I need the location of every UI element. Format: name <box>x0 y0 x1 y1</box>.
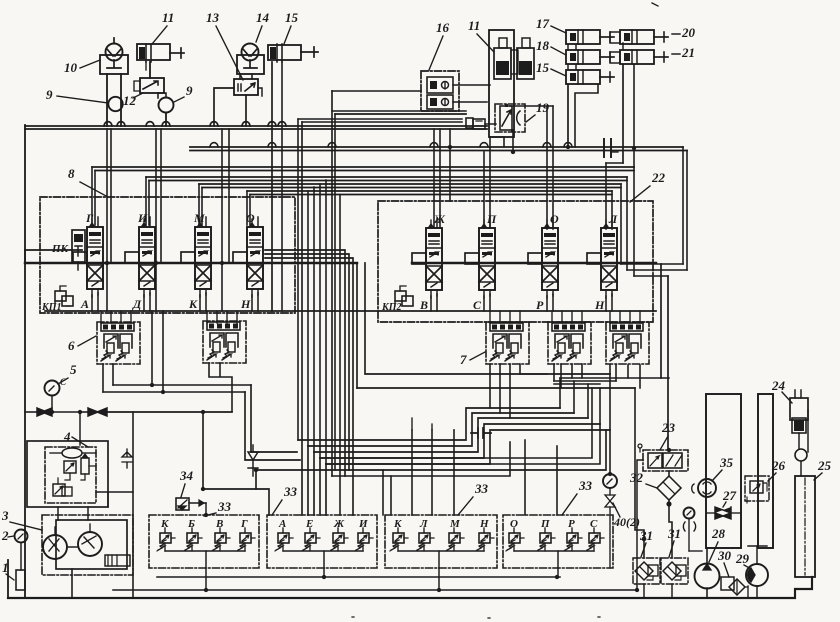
gauge 40 <box>603 474 617 488</box>
wire fan right up <box>560 378 600 424</box>
svg-text:33: 33 <box>217 499 232 514</box>
svg-text:15: 15 <box>285 10 299 25</box>
wire rail pair E <box>247 190 612 192</box>
wire bus hops <box>104 122 286 126</box>
wire 16 out1 <box>453 84 490 86</box>
svg-text:33: 33 <box>283 484 298 499</box>
svg-text:7: 7 <box>460 352 467 367</box>
pump 3b <box>78 532 102 556</box>
wire block feed <box>206 311 208 323</box>
wire station drop <box>513 543 515 551</box>
wire 14-13 R <box>251 74 253 79</box>
svg-text:32: 32 <box>629 470 644 485</box>
wire block feed <box>499 311 501 323</box>
gauge 2 <box>15 530 28 543</box>
wire gap c4 <box>356 263 358 388</box>
svg-text:35: 35 <box>719 455 734 470</box>
svg-text:Г: Г <box>240 518 248 530</box>
circle 24b <box>795 449 807 461</box>
wire station drop <box>593 543 595 551</box>
wire 33 collector <box>398 550 484 552</box>
wire 33 center drop <box>323 551 325 568</box>
svg-text:2: 2 <box>1 528 9 543</box>
wire fan v5 <box>325 180 327 464</box>
cylinder 15L <box>268 45 301 60</box>
wire 21 drop <box>633 65 635 167</box>
svg-text:17: 17 <box>536 16 550 31</box>
wing И <box>125 252 139 263</box>
cylinder 17 <box>566 30 600 44</box>
wire 33 collector <box>514 550 594 552</box>
wire block feed <box>226 311 228 323</box>
valve Ж <box>426 228 442 290</box>
wire station drop <box>309 543 311 551</box>
flow meter 9 <box>108 97 122 111</box>
svg-text:Ж: Ж <box>433 212 446 226</box>
wire low3 <box>256 430 606 489</box>
wire 11-12 <box>149 62 151 78</box>
acc elem3 <box>53 484 65 496</box>
check valve a <box>37 408 52 416</box>
svg-text:21: 21 <box>681 45 695 60</box>
svg-text:С: С <box>473 298 482 312</box>
gauge 5 <box>45 381 60 396</box>
wire bottom bus 2 <box>7 560 9 598</box>
wire block6a out R <box>112 364 114 385</box>
wire block feed <box>120 311 122 323</box>
wire 17-18 <box>567 45 569 49</box>
wire g3 feeds <box>383 430 454 515</box>
wire bus A <box>190 146 683 148</box>
wire 20 drop <box>622 65 624 163</box>
svg-text:31: 31 <box>639 528 653 543</box>
svg-text:9: 9 <box>46 87 53 102</box>
wire g1 drop <box>205 568 207 590</box>
wire 7c out <box>610 365 640 388</box>
filter 31b <box>661 558 688 584</box>
wire 33 collector <box>283 550 363 552</box>
wire railR A1 <box>682 147 684 264</box>
wire 23 left down <box>637 460 643 590</box>
valve М <box>195 227 211 289</box>
wire jog 3 <box>634 275 668 277</box>
wire 24 down <box>798 433 800 449</box>
cylinder 24 <box>790 398 808 420</box>
svg-text:К: К <box>188 297 198 311</box>
wire valve rail 2 <box>25 262 656 264</box>
wire 33 center drop <box>438 551 440 568</box>
wire block feed <box>216 311 218 323</box>
svg-text:В: В <box>419 298 428 312</box>
svg-text:18: 18 <box>536 38 550 53</box>
tank 1 <box>16 570 25 590</box>
wire 24-25 <box>800 461 802 476</box>
wire g2 feed extra <box>332 195 510 516</box>
wire 34 drop <box>205 503 207 515</box>
wire low2 <box>326 424 600 464</box>
valve 34 <box>176 498 189 510</box>
wire valve drop <box>143 295 145 311</box>
cylinder 15R <box>566 70 600 84</box>
wire g3 src <box>412 418 454 430</box>
wire railR B1 <box>633 167 635 276</box>
wire bus drop 3 <box>221 129 223 311</box>
wire block feed <box>100 311 102 323</box>
wire valve drop <box>546 296 548 311</box>
svg-text:П: П <box>486 212 497 226</box>
box 16 <box>421 71 459 111</box>
cylinder bridge <box>511 50 518 74</box>
cylinder block 11R <box>489 30 514 137</box>
valve П <box>479 228 495 290</box>
wire valve drop <box>605 296 607 311</box>
filter 32 <box>657 476 681 500</box>
wire h378 <box>560 377 669 379</box>
group 33 box <box>503 515 613 568</box>
svg-text:Л: Л <box>608 212 618 226</box>
wire 32 down <box>669 500 672 558</box>
svg-text:13: 13 <box>206 10 220 25</box>
pump 29 <box>746 564 768 586</box>
svg-text:33: 33 <box>474 481 489 496</box>
wire station drop <box>423 543 425 551</box>
svg-text:20: 20 <box>681 25 696 40</box>
wire railR D1 <box>620 184 622 264</box>
wire h119 <box>298 118 462 120</box>
svg-text:8: 8 <box>68 166 75 181</box>
cylinder 21 <box>610 52 620 63</box>
wire 12 down <box>157 93 159 98</box>
junction dots <box>201 410 205 414</box>
wire feed G pair <box>91 167 93 225</box>
pump 14 <box>242 44 259 61</box>
wire v635 <box>635 388 644 558</box>
svg-text:Г: Г <box>85 211 94 225</box>
wire h388 <box>357 387 635 389</box>
svg-text:27: 27 <box>722 488 737 503</box>
wire fan steps <box>298 408 610 464</box>
wire station drop <box>164 543 166 551</box>
accumulator 4 <box>62 448 82 458</box>
wire station drop <box>282 543 284 551</box>
wire 25 top <box>773 459 801 461</box>
wire station drop <box>544 543 546 551</box>
wire block feed <box>110 311 112 323</box>
wire rail pair D <box>199 183 621 185</box>
wire block feed <box>236 311 238 323</box>
wire block feed <box>509 311 511 323</box>
tank 25 <box>795 476 815 577</box>
wire jog 1 <box>621 263 683 265</box>
check valve c <box>248 445 258 476</box>
valve KP1 <box>55 291 66 301</box>
relief block 6b <box>203 321 246 363</box>
wire station drop <box>244 543 246 551</box>
wire block6b out <box>209 363 232 411</box>
wire gap c1 <box>265 250 345 476</box>
valve 13 body <box>234 79 258 95</box>
relief block 7b <box>548 322 591 364</box>
valve KP2 <box>395 291 406 301</box>
wire 16 out2 <box>453 101 487 103</box>
svg-text:33: 33 <box>578 478 593 493</box>
cylinder 11R-1 <box>499 38 507 48</box>
svg-text:Р: Р <box>536 298 544 312</box>
pipe joint <box>604 139 611 157</box>
wire block feed <box>629 311 631 323</box>
wire block feed <box>581 311 583 323</box>
valve 23 <box>643 450 688 471</box>
pump 35 <box>698 479 716 497</box>
relief block 6a <box>97 322 140 364</box>
svg-text:25: 25 <box>817 458 832 473</box>
svg-text:И: И <box>137 211 148 225</box>
acc elem2 <box>81 458 89 474</box>
cylinder 20 <box>610 32 620 43</box>
svg-text:О: О <box>550 212 559 226</box>
wire bus drop 2 <box>155 129 157 311</box>
wire g3 drop <box>438 568 440 590</box>
cylinder 11 <box>137 44 170 60</box>
wire cv a <box>25 411 37 413</box>
wire station drop <box>453 543 455 551</box>
acc valve <box>64 461 76 473</box>
wire mid h392 <box>103 391 245 393</box>
wire 18-15 <box>567 65 569 69</box>
tall rect A <box>706 394 741 548</box>
relief block 7a <box>486 322 529 364</box>
wire 13 left down <box>214 88 234 126</box>
wire station drop <box>219 543 221 551</box>
box 4 outer <box>27 441 108 507</box>
svg-text:16: 16 <box>436 20 450 35</box>
wire top bus pair <box>25 128 487 130</box>
wire v513 <box>512 132 514 152</box>
wire fan v3 <box>313 187 315 452</box>
svg-text:Ж: Ж <box>333 518 345 530</box>
wire block feed <box>489 311 491 323</box>
wire bottom h1 <box>157 576 560 578</box>
wire valve rail 1 <box>25 249 82 251</box>
valve 12 <box>140 78 164 93</box>
wire gap c3 <box>265 258 353 515</box>
group 33 box <box>267 515 377 568</box>
wing Л <box>587 253 601 264</box>
wing П <box>465 253 479 264</box>
wire 4-3 stubs <box>58 507 88 520</box>
group box 22 <box>378 201 653 322</box>
wire railR C1 <box>626 177 628 270</box>
wire h381 <box>554 380 616 382</box>
wire fan v1 <box>297 119 299 440</box>
wire 33 collector <box>165 550 245 552</box>
wire bus drop 1 <box>106 129 108 311</box>
wire 3 down <box>71 569 73 598</box>
wire block feed <box>639 311 641 323</box>
wire below valves <box>45 310 656 312</box>
wire valve col 1 <box>151 311 153 385</box>
wire valve drop <box>199 295 201 311</box>
wire g2 drop <box>323 568 325 577</box>
gauge 28g <box>684 508 695 519</box>
flow meter 9b <box>159 98 174 113</box>
wire feed O2 <box>546 106 548 229</box>
wire fan v4 <box>319 184 321 458</box>
wire cv down <box>202 412 204 489</box>
svg-text:А: А <box>80 297 89 311</box>
wire left border <box>24 125 26 598</box>
pump 10 <box>106 44 123 61</box>
wire bus hops2 <box>210 143 572 147</box>
box 3 inner <box>56 520 127 569</box>
svg-text:В: В <box>215 518 223 530</box>
cylinder 18 <box>566 50 600 64</box>
wire 33 center drop <box>205 551 207 568</box>
wire 29 down <box>756 586 758 598</box>
pump 3a <box>43 535 67 559</box>
wire stair cvG2 <box>203 489 269 515</box>
wire h374 <box>365 263 610 374</box>
wire 4 int <box>58 466 96 484</box>
svg-text:Н: Н <box>240 297 251 311</box>
cylinder 11R-2 <box>522 38 530 48</box>
filter 30 <box>721 577 734 590</box>
wire g4 drop <box>557 568 559 577</box>
pump 28 <box>695 564 720 589</box>
wire feed O pair <box>246 191 248 225</box>
wire 15R drop2 <box>575 85 598 147</box>
wire 16 left <box>332 90 421 92</box>
relief block 7c <box>606 322 649 364</box>
box 4 <box>45 447 96 503</box>
valve Г <box>87 227 103 289</box>
svg-text:Н: Н <box>594 298 605 312</box>
wire station drop <box>362 543 364 551</box>
check valve small <box>122 449 132 468</box>
wire feed P <box>483 152 485 228</box>
wire fan drops <box>302 122 326 515</box>
svg-text:Е: Е <box>305 518 313 530</box>
wire mid v251 <box>251 385 297 452</box>
valve Л <box>601 228 617 290</box>
svg-text:А: А <box>278 518 286 530</box>
wire 13 down <box>245 95 247 126</box>
wire cv b <box>80 411 88 413</box>
valve И <box>139 227 155 289</box>
scan dots bottom <box>352 617 600 618</box>
svg-text:14: 14 <box>256 10 270 25</box>
wire railR A2 <box>686 151 688 271</box>
wire feed Zh <box>433 129 435 228</box>
wire bold down <box>660 264 662 378</box>
check valve b <box>88 408 107 416</box>
wire block feed <box>609 311 611 323</box>
svg-text:31: 31 <box>667 526 681 541</box>
wire 7b out <box>554 364 582 388</box>
svg-text:М: М <box>449 518 461 530</box>
wing Ж <box>412 253 426 264</box>
wire block feed <box>619 311 621 323</box>
svg-text:29: 29 <box>735 551 750 566</box>
svg-text:24: 24 <box>771 378 786 393</box>
wire station drop <box>483 543 485 551</box>
svg-text:ПК: ПК <box>51 243 69 255</box>
wire station drop <box>397 543 399 551</box>
svg-text:34: 34 <box>179 468 194 483</box>
svg-text:40(2): 40(2) <box>613 515 640 529</box>
svg-text:23: 23 <box>661 420 676 435</box>
wire block feed <box>130 311 132 323</box>
svg-text:15: 15 <box>536 60 550 75</box>
wire 33 center drop <box>557 551 559 568</box>
wire mid h385 <box>113 384 251 386</box>
valve 26 <box>745 476 769 501</box>
wire jog 2 <box>627 269 687 271</box>
wire feed L <box>605 163 607 229</box>
group 33 box <box>149 515 259 568</box>
wire 11R drop <box>490 137 504 147</box>
wing Г <box>73 252 87 263</box>
wire bus B <box>190 150 687 152</box>
svg-text:10: 10 <box>64 60 78 75</box>
wire 3 right v <box>132 412 134 598</box>
wire 23 down <box>668 471 670 476</box>
wire g4 feeds <box>525 440 557 515</box>
wire valve drop <box>251 295 253 311</box>
svg-text:4: 4 <box>63 429 71 444</box>
svg-text:6: 6 <box>68 338 75 353</box>
wire block feed <box>519 311 521 323</box>
box 3 dashdot <box>42 515 133 575</box>
svg-text:Д: Д <box>132 297 142 311</box>
wire valve drop <box>483 296 485 311</box>
svg-text:22: 22 <box>651 170 666 185</box>
svg-text:28: 28 <box>711 526 726 541</box>
valve О <box>247 227 263 289</box>
wire 15L drop R <box>281 62 283 311</box>
scan mark top <box>652 3 658 6</box>
wire rail pair B <box>92 166 634 168</box>
wire valve drop <box>91 295 93 311</box>
svg-text:11: 11 <box>468 18 480 33</box>
svg-text:11: 11 <box>162 10 174 25</box>
svg-text:12: 12 <box>123 93 137 108</box>
wire block feed <box>571 311 573 323</box>
svg-text:5: 5 <box>70 362 77 377</box>
wire conn left <box>332 110 466 112</box>
wire top bus <box>25 125 487 127</box>
wire 4-3 <box>96 492 133 507</box>
wire 31a <box>643 584 645 598</box>
valve PK <box>72 230 85 262</box>
wire v610 gauge <box>609 374 611 474</box>
svg-text:М: М <box>193 211 205 225</box>
wire h384 <box>554 383 600 385</box>
wire block6a out L <box>102 364 104 392</box>
wire block feed <box>561 311 563 323</box>
wire rail pair C <box>146 176 627 178</box>
wing М <box>181 252 195 263</box>
filter 31a <box>633 558 660 584</box>
wire 31b <box>671 584 673 598</box>
svg-text:9: 9 <box>186 83 193 98</box>
connector box <box>466 118 473 128</box>
svg-text:Б: Б <box>187 518 195 530</box>
wire feed I pair <box>145 177 147 225</box>
wire fan v2 <box>307 191 309 446</box>
valve 27 <box>715 507 731 519</box>
wire valve drop <box>430 296 432 311</box>
